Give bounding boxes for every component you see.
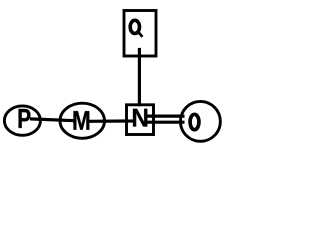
label Q tail xyxy=(138,31,143,37)
node M ellipse xyxy=(60,103,105,138)
wire N=O upper line xyxy=(147,114,185,117)
node O circle xyxy=(180,101,220,141)
wire P-M xyxy=(30,119,75,121)
node P ellipse xyxy=(4,106,40,135)
node N box xyxy=(127,105,154,135)
label Q xyxy=(130,20,139,33)
wire Q-N vertical xyxy=(138,48,141,106)
wire N=O lower line xyxy=(147,121,185,124)
label P xyxy=(19,109,31,128)
label N xyxy=(133,109,147,127)
label O xyxy=(190,114,199,129)
node Q box xyxy=(124,11,156,57)
wire M-N xyxy=(89,119,134,123)
label M xyxy=(73,111,89,130)
